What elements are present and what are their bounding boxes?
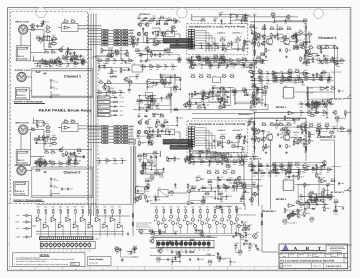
capacitor C194: [219, 55, 223, 60]
svg-text:R137: R137: [206, 148, 210, 151]
connector J3 INPUT 2 XLR: [19, 125, 28, 134]
svg-text:.1: .1: [241, 223, 242, 226]
resistor R342: [153, 42, 158, 46]
svg-text:LM 1/2 watt: LM 1/2 watt: [89, 261, 98, 264]
resistor R317: [73, 63, 78, 65]
svg-text:R92: R92: [294, 137, 297, 140]
capacitor C10: [44, 60, 48, 65]
node junction: [236, 186, 237, 187]
diode D38: [273, 73, 277, 75]
svg-text:47p: 47p: [296, 211, 299, 214]
wire: [219, 258, 230, 262]
resistor R249: [187, 188, 192, 192]
diode D36: [134, 248, 136, 252]
wire: [43, 30, 45, 50]
wire: [193, 162, 195, 165]
capacitor C186: [43, 35, 50, 39]
capacitor C56: [297, 46, 303, 50]
main board dashed boundary: [97, 58, 99, 204]
resistor R241: [36, 120, 42, 125]
svg-text:C43: C43: [180, 251, 183, 254]
node junction: [43, 23, 44, 24]
svg-text:1N914: 1N914: [159, 176, 164, 179]
svg-text:4K7: 4K7: [297, 178, 300, 181]
wire: [38, 37, 47, 39]
node junction: [149, 131, 150, 132]
IC U4: [62, 121, 79, 132]
capacitor C76: [217, 97, 223, 101]
capacitor C37: [136, 133, 140, 138]
ribbon cable bus to noise gate pcb: [163, 39, 193, 49]
node junction: [67, 56, 68, 57]
wire: [281, 74, 283, 77]
svg-text:C109: C109: [234, 242, 238, 245]
capacitor C47: [150, 94, 156, 98]
node junction: [133, 42, 134, 43]
wire: [284, 79, 290, 81]
capacitor C84: [232, 185, 238, 189]
wire: [311, 193, 330, 197]
resistor R275: [216, 91, 221, 93]
noise gate header connector: [186, 29, 195, 50]
resistor R148: [223, 183, 229, 188]
diode D8: [114, 97, 118, 99]
node junction: [37, 63, 38, 64]
wire: [198, 57, 225, 61]
resistor R133: [253, 96, 258, 100]
svg-text:R119: R119: [191, 73, 195, 76]
wire: [148, 137, 151, 142]
wire: [326, 112, 328, 118]
capacitor C147: [217, 187, 221, 189]
wire: [305, 24, 307, 56]
wire: [142, 99, 153, 101]
transistor Q43: [174, 41, 179, 45]
transistor Q11: [137, 130, 141, 134]
capacitor C23: [43, 171, 47, 173]
trimmer VR6: [235, 35, 242, 41]
resistor R168: [311, 100, 316, 104]
capacitor C177: [253, 122, 255, 126]
node junction: [243, 161, 244, 162]
capacitor C169: [209, 160, 213, 162]
svg-text:R339: R339: [165, 33, 169, 36]
resistor R13: [51, 58, 56, 63]
wire: [175, 78, 180, 90]
svg-text:10: 10: [75, 268, 77, 271]
resistor R314: [299, 204, 304, 206]
resistor R122: [221, 73, 226, 77]
node junction: [116, 53, 117, 54]
wire: [158, 258, 175, 260]
capacitor C132: [147, 131, 151, 136]
node junction: [177, 125, 178, 126]
svg-text:R72: R72: [287, 26, 290, 29]
node junction: [148, 142, 149, 143]
node junction: [42, 63, 43, 64]
resistor R258: [156, 122, 162, 127]
capacitor C109: [234, 242, 238, 247]
resistor R52: [98, 79, 103, 83]
resistor R22: [44, 149, 49, 153]
wire: [189, 57, 191, 63]
wire: [321, 191, 323, 197]
node junction: [241, 20, 242, 21]
svg-text:C205: C205: [163, 97, 167, 100]
capacitor C98: [338, 182, 344, 186]
svg-text:2K2: 2K2: [219, 102, 222, 105]
op-amp U18: [187, 201, 194, 204]
wire: [110, 101, 114, 103]
resistor labels row: [37, 206, 121, 209]
svg-text:R3: R3: [46, 24, 48, 27]
capacitor C24: [50, 177, 56, 181]
wire: [274, 17, 276, 23]
jfet Q2B: [283, 134, 290, 141]
svg-text:R263: R263: [335, 115, 339, 118]
svg-text:C85: C85: [259, 185, 262, 188]
resistor R14: [58, 56, 63, 61]
diode D51: [206, 60, 210, 62]
resistor R350: [256, 55, 261, 59]
resistor R194: [75, 209, 77, 214]
svg-text:R353: R353: [197, 55, 201, 58]
capacitor C34: [137, 113, 141, 118]
wire: [133, 256, 139, 258]
resistor R262: [347, 128, 352, 132]
capacitor C15: [50, 86, 55, 90]
op-amp U2: [63, 26, 70, 29]
resistor R113: [241, 57, 246, 61]
resistor R49: [106, 53, 111, 57]
resistor R74: [286, 48, 291, 53]
resistor R82: [261, 121, 266, 125]
wire: [211, 61, 225, 66]
wire: [172, 28, 173, 32]
ground: [189, 258, 192, 261]
resistor R138: [198, 149, 203, 153]
capacitor C40: [140, 59, 146, 63]
svg-text:.01: .01: [155, 174, 157, 177]
wire: [138, 41, 160, 43]
svg-text:R155: R155: [149, 159, 153, 162]
resistor R73: [265, 48, 270, 53]
underline: [14, 201, 45, 203]
resistor R223: [189, 239, 194, 241]
resistor R356: [292, 33, 297, 37]
wire: [96, 60, 134, 62]
svg-text:R76: R76: [299, 29, 302, 32]
svg-text:C88: C88: [157, 199, 160, 202]
svg-text:R251: R251: [135, 48, 139, 51]
resistor R309: [281, 169, 286, 171]
trimmer VR10: [307, 53, 313, 56]
wire: [147, 127, 153, 129]
node junction: [169, 134, 170, 135]
diode D33: [169, 240, 171, 244]
svg-text:C108: C108: [248, 244, 252, 247]
svg-text:C123: C123: [199, 258, 203, 261]
wire: [192, 57, 223, 59]
resistor R320: [50, 163, 55, 165]
resistor R237: [258, 165, 263, 167]
wire: [308, 132, 310, 138]
diode D59: [206, 156, 210, 158]
wire: [255, 16, 299, 18]
wire: [178, 253, 180, 255]
capacitor C180: [305, 26, 307, 30]
svg-text:Chk dts: Chk dts: [289, 254, 294, 256]
resistor R195: [82, 209, 84, 214]
svg-text:TH CLAMP 2: TH CLAMP 2: [287, 221, 297, 224]
registration hole: [314, 9, 324, 19]
svg-text:.1: .1: [228, 207, 229, 210]
capacitor C86: [240, 197, 246, 201]
diode D22: [234, 179, 238, 181]
ribbon header connector column 1: [102, 30, 108, 46]
meter array 1 supply wire: [36, 203, 133, 205]
node junction: [174, 74, 175, 75]
resistor R170: [287, 161, 292, 165]
wire: [337, 118, 349, 131]
link terminal box: [98, 105, 111, 108]
svg-text:U2: U2: [62, 121, 64, 124]
transistor Q41: [286, 15, 291, 19]
svg-text:U3: U3: [166, 29, 168, 32]
resistor R5: [70, 18, 75, 22]
resistor R75: [293, 45, 298, 50]
resistor R144: [214, 169, 219, 173]
resistor R67: [258, 33, 263, 38]
capacitor C61: [251, 137, 257, 141]
wire: [258, 160, 260, 206]
resistor R234: [273, 80, 278, 82]
wire: [161, 75, 175, 81]
capacitor C25: [50, 184, 56, 188]
resistor R30: [159, 15, 164, 19]
capacitor C189: [156, 34, 163, 38]
svg-text:R364: R364: [168, 92, 172, 95]
wire: [228, 63, 244, 65]
wire: [190, 151, 216, 158]
svg-text:ATK 2: ATK 2: [249, 161, 254, 164]
svg-text:.1: .1: [42, 125, 43, 128]
bus wire: [153, 233, 240, 235]
wire: [110, 97, 114, 99]
node junction: [253, 73, 254, 74]
svg-text:R228: R228: [139, 228, 143, 231]
node junction: [56, 58, 57, 59]
wire: [231, 63, 237, 65]
capacitor C110: [171, 250, 177, 254]
resistor R139: [239, 158, 244, 162]
resistor R265: [333, 208, 338, 212]
resistor R134: [256, 87, 262, 92]
resistor R246: [218, 104, 223, 108]
resistor R191: [53, 209, 55, 214]
wire: [320, 139, 335, 141]
wire: [253, 74, 255, 77]
svg-text:OUTPUT 1 XLR: OUTPUT 1 XLR: [15, 69, 31, 72]
capacitor C120: [40, 20, 44, 25]
resistor R307: [233, 161, 238, 163]
capacitor C121: [42, 20, 49, 24]
resistor R294: [322, 112, 327, 114]
output stage 2 enclosure: [32, 167, 93, 198]
wire: [293, 131, 299, 133]
diode D11: [279, 48, 281, 52]
node junction: [254, 27, 255, 28]
svg-text:+(R) (NO CONNECTION): +(R) (NO CONNECTION): [237, 214, 257, 217]
wire: [149, 132, 170, 135]
svg-text:R253: R253: [166, 47, 170, 50]
resistor R143: [206, 169, 211, 173]
bus wire: [153, 236, 218, 238]
svg-text:4K7: 4K7: [174, 91, 177, 94]
wire: [121, 248, 136, 257]
ribbon header connector column 1: [102, 126, 108, 144]
node junction: [201, 45, 202, 46]
resistor R227: [150, 230, 155, 234]
svg-text:U10: U10: [172, 138, 175, 141]
svg-text:.1: .1: [156, 37, 157, 40]
ground: [227, 64, 230, 67]
svg-text:U16: U16: [284, 177, 287, 180]
resistor R291: [314, 103, 319, 105]
wire: [296, 34, 297, 47]
svg-text:2K2: 2K2: [115, 250, 118, 253]
wire: [252, 172, 281, 174]
resistor R129: [257, 87, 263, 92]
capacitor C39: [110, 47, 114, 52]
resistor R38: [167, 17, 172, 21]
svg-text:C193: C193: [264, 59, 268, 62]
capacitor C143: [192, 44, 196, 46]
resistor R155: [149, 159, 154, 163]
wire: [308, 205, 310, 208]
node junction: [54, 62, 55, 63]
wire: [28, 29, 44, 31]
capacitor C19: [44, 160, 50, 164]
resistor R282: [339, 128, 344, 130]
wire: [334, 45, 336, 98]
op-amp U3: [62, 56, 69, 59]
resistor R305: [200, 161, 205, 163]
vertical supply bundle: [89, 14, 97, 217]
wire: [255, 89, 258, 99]
jfet Q2A: [266, 134, 273, 141]
wire: [141, 232, 153, 234]
wire +15V rail: [192, 16, 255, 18]
resistor R347: [255, 31, 261, 36]
wire: [55, 61, 57, 62]
wire: [117, 53, 127, 56]
svg-text:R267: R267: [156, 256, 160, 259]
svg-text:C121: C121: [45, 20, 49, 23]
wire: [190, 58, 200, 60]
ground: [298, 210, 301, 213]
capacitor C51: [213, 139, 219, 143]
capacitor C185: [51, 38, 58, 42]
capacitor C96: [312, 166, 318, 170]
resistor R210: [207, 208, 209, 213]
resistor R345: [260, 51, 265, 55]
svg-text:R367: R367: [216, 93, 220, 96]
wire: [224, 89, 226, 95]
resistor R230: [132, 245, 137, 249]
wire: [236, 226, 244, 234]
resistor R238: [253, 172, 258, 174]
node junction: [106, 92, 107, 93]
noise gate fan-out wires: [195, 128, 215, 149]
resistor R58: [160, 78, 165, 82]
node junction: [262, 62, 263, 63]
resistor R193: [67, 209, 69, 214]
resistor R303: [189, 156, 194, 158]
capacitor C128: [164, 48, 171, 52]
wire: [167, 51, 173, 53]
resistor R245: [223, 99, 228, 103]
wire: [139, 96, 153, 108]
resistor R42: [157, 128, 162, 133]
svg-text:.047: .047: [313, 55, 316, 58]
svg-text:R87: R87: [288, 145, 291, 148]
underline: [14, 102, 45, 104]
resistor R332: [39, 37, 44, 41]
switch lever: [347, 187, 351, 191]
capacitor C7: [44, 60, 49, 64]
resistor R250: [201, 199, 206, 203]
ground: [221, 146, 224, 149]
wire: [190, 156, 225, 158]
svg-text:R333: R333: [51, 43, 55, 46]
svg-text:RING: RING: [98, 110, 103, 113]
resistor R331: [36, 35, 41, 39]
svg-text:.01: .01: [287, 218, 289, 221]
wire: [134, 248, 136, 250]
svg-text:VR4: VR4: [52, 139, 56, 142]
resistor R23: [50, 149, 55, 153]
led labels: [41, 249, 91, 252]
capacitor C92: [282, 76, 288, 80]
node junction: [244, 64, 245, 65]
resistor labels row: [155, 205, 238, 208]
capacitor C142: [220, 205, 227, 209]
svg-text:C210: C210: [251, 70, 255, 73]
diode D2: [74, 151, 76, 155]
svg-text:.1: .1: [342, 208, 343, 211]
ground: [215, 151, 218, 154]
capacitor C172: [307, 195, 311, 197]
node junction: [219, 58, 220, 59]
resistor R99: [332, 44, 337, 48]
resistor R254: [151, 52, 157, 57]
wire: [139, 99, 152, 102]
wire: [306, 140, 309, 142]
node junction: [335, 211, 336, 212]
ground: [265, 55, 268, 58]
svg-text:R354: R354: [257, 60, 261, 63]
node junction: [156, 157, 157, 158]
resistor R77: [307, 31, 312, 35]
node junction: [275, 77, 276, 78]
resistor R325: [254, 33, 256, 38]
wire: [188, 60, 191, 67]
wire: [313, 78, 315, 81]
svg-text:C47: C47: [152, 95, 155, 98]
wire: [334, 140, 336, 191]
capacitor C18: [39, 160, 45, 164]
